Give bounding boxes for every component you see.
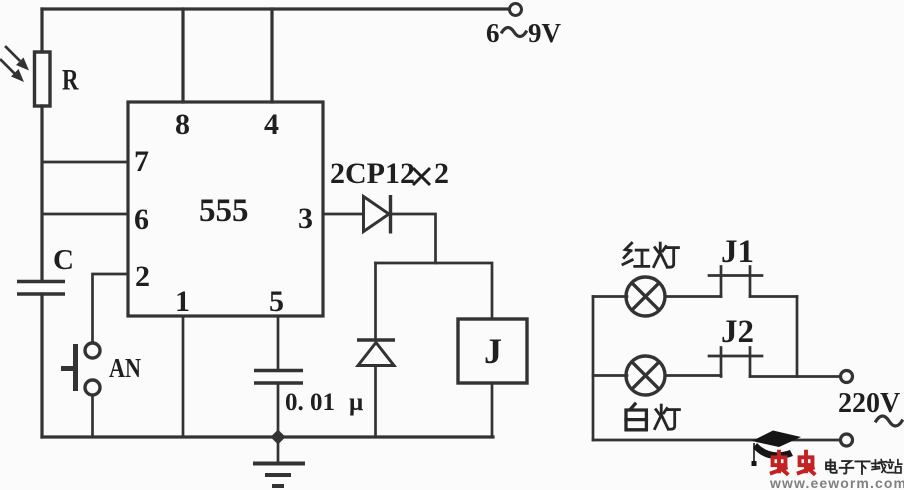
- svg-text:0. 01: 0. 01: [285, 389, 335, 416]
- wire: J2 row to terminal: [750, 375, 840, 378]
- wire: pin 5 drop: [277, 316, 280, 370]
- wire: flyback branch down: [374, 263, 377, 339]
- wire: flyback diode to ground rail: [374, 366, 377, 438]
- wire: pin6 connection: [42, 213, 128, 216]
- light arrow 2: [1, 60, 24, 82]
- svg-text:R: R: [62, 64, 79, 97]
- wire: left rail lower: [40, 294, 43, 437]
- wire: branch top to relay: [436, 263, 493, 319]
- wire: left rail from R to capacitor C: [40, 106, 43, 281]
- capacitor C: [17, 282, 65, 295]
- flyback diode: [357, 340, 395, 366]
- wire: lamp circuit bottom rail: [593, 439, 840, 442]
- watermark graduation cap: [752, 431, 802, 467]
- terminal: 220V lower: [841, 434, 853, 446]
- relay contact J1: [709, 267, 762, 297]
- svg-text:8: 8: [175, 108, 190, 141]
- svg-text:4: 4: [264, 108, 279, 141]
- relay J coil box: [458, 319, 527, 383]
- svg-text:www.eeworm.com: www.eeworm.com: [769, 475, 904, 490]
- wire: pin 4 drop from rail: [270, 9, 273, 102]
- lamp 红灯 (red lamp): [626, 277, 665, 316]
- pushbutton AN: [61, 343, 100, 395]
- svg-text:9V: 9V: [528, 18, 562, 48]
- watermark 电子下载站: [826, 460, 837, 473]
- svg-text:555: 555: [199, 193, 249, 229]
- svg-text:6: 6: [486, 18, 500, 48]
- ground: [253, 444, 305, 486]
- svg-text:2CP12: 2CP12: [330, 157, 415, 190]
- svg-text:C: C: [53, 244, 74, 276]
- wire: red lamp row left: [593, 295, 627, 298]
- terminal: +V supply: [510, 4, 522, 16]
- wire: pin 8 drop from rail: [181, 9, 184, 102]
- svg-text:J2: J2: [721, 314, 754, 350]
- wire: diode to relay branch: [376, 214, 436, 263]
- svg-text:J: J: [484, 331, 502, 371]
- svg-text:1: 1: [175, 285, 190, 318]
- wire: button to ground rail: [91, 395, 94, 437]
- wire: white lamp to contact J2: [665, 374, 721, 377]
- svg-text:6: 6: [134, 203, 149, 236]
- svg-text:J1: J1: [721, 234, 754, 270]
- label 红灯: [623, 243, 649, 266]
- label wave ~: [876, 416, 902, 426]
- diode 2CP12: [364, 195, 391, 234]
- svg-text:220V: 220V: [838, 388, 900, 419]
- light arrow 1: [6, 47, 29, 71]
- svg-text:μ: μ: [349, 389, 363, 416]
- wire: pin7 connection: [42, 161, 128, 164]
- relay contact J2: [709, 348, 762, 377]
- wire: white lamp row left: [593, 374, 627, 377]
- wire: left rail upper: [40, 9, 43, 52]
- wire: relay to ground rail: [491, 383, 494, 437]
- label 白灯: [626, 404, 646, 430]
- wire: lamp circuit left rail: [592, 297, 595, 441]
- wire: red lamp to contact J1: [665, 295, 721, 298]
- wire: pin 2 to button: [93, 274, 129, 342]
- node: ground junction diamond: [271, 430, 286, 445]
- svg-text:AN: AN: [109, 353, 141, 383]
- wire: J1 to right rail: [750, 295, 797, 298]
- svg-text:3: 3: [298, 202, 313, 235]
- capacitor 0.01u: [254, 371, 303, 384]
- wire: cap to ground rail: [277, 383, 280, 437]
- svg-text:2: 2: [135, 260, 150, 293]
- svg-text:2: 2: [434, 157, 449, 190]
- wire: top power rail: [42, 7, 508, 10]
- svg-text:7: 7: [134, 145, 149, 178]
- wire: ground bottom rail: [42, 435, 493, 438]
- resistor R (photoresistor body): [35, 52, 51, 106]
- wire: right rail vertical: [796, 297, 799, 377]
- lamp 白灯 (white lamp): [626, 356, 665, 395]
- wire: pin 1 drop to ground rail: [182, 316, 185, 437]
- wire: pin 3 out: [323, 213, 362, 216]
- op-amp U1: 555 timer box: [128, 102, 323, 316]
- watermark 虫虫: [772, 452, 787, 474]
- terminal: 220V upper: [841, 371, 853, 383]
- svg-text:5: 5: [269, 285, 284, 318]
